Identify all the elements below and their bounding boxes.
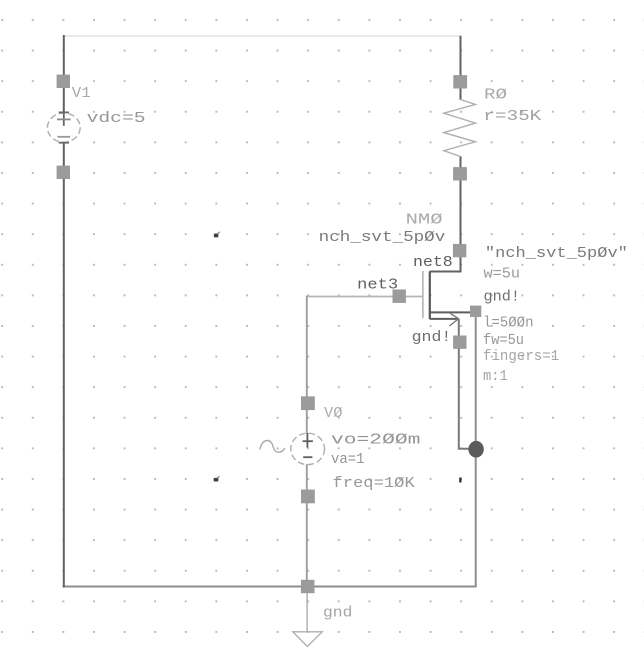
svg-text:va=1: va=1 — [331, 451, 365, 468]
svg-text:w=5u: w=5u — [484, 266, 521, 283]
svg-text:m:1: m:1 — [483, 368, 508, 385]
svg-text:vdc=5: vdc=5 — [87, 110, 146, 127]
svg-text:r=35K: r=35K — [483, 108, 541, 125]
svg-text:fingers=1: fingers=1 — [483, 348, 559, 365]
svg-text:net8: net8 — [413, 254, 453, 271]
svg-text:VØ: VØ — [324, 405, 343, 422]
svg-text:RØ: RØ — [484, 87, 507, 104]
svg-text:NMØ: NMØ — [406, 211, 443, 228]
svg-text:freq=1ØK: freq=1ØK — [332, 475, 414, 492]
svg-text:V1: V1 — [72, 85, 91, 102]
svg-text:fw=5u: fw=5u — [483, 332, 524, 349]
svg-text:gnd: gnd — [323, 605, 352, 622]
svg-text:nch_svt_5pØv: nch_svt_5pØv — [319, 229, 446, 246]
svg-text:vo=2ØØm: vo=2ØØm — [331, 432, 420, 449]
svg-text:gnd!: gnd! — [412, 329, 452, 346]
svg-text:l=5ØØn: l=5ØØn — [483, 314, 534, 331]
svg-text:gnd!: gnd! — [484, 288, 521, 305]
svg-text:"nch_svt_5pØv": "nch_svt_5pØv" — [485, 245, 628, 262]
svg-text:net3: net3 — [357, 277, 398, 294]
